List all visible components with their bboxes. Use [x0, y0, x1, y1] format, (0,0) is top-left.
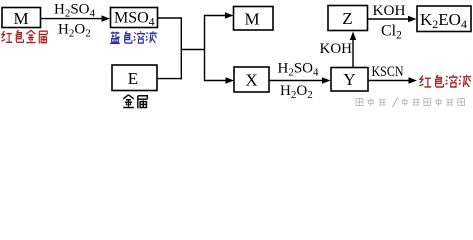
svg-text:KOH: KOH: [373, 3, 406, 19]
wire to X: [205, 80, 227, 82]
box M1: [2, 8, 41, 28]
arrowhead into X: [226, 77, 235, 83]
arrowhead into Y: [322, 77, 331, 83]
wire middle horizontal: [181, 49, 205, 51]
svg-text:M: M: [244, 10, 259, 29]
svg-text:H2SO4: H2SO4: [54, 2, 96, 20]
svg-text:Z: Z: [342, 9, 352, 28]
arrowhead into Z: [350, 32, 356, 41]
arrowhead into MSO4: [102, 15, 111, 21]
wire Y to Z vertical: [352, 40, 354, 67]
wire E exit: [157, 78, 182, 80]
arrowhead into K2EO4: [408, 16, 417, 22]
box Y: [331, 68, 368, 92]
svg-text:MSO4: MSO4: [114, 10, 155, 29]
box Z: [328, 6, 368, 31]
svg-text:K2EO4: K2EO4: [420, 10, 467, 31]
svg-text:E: E: [128, 69, 138, 88]
label 红色溶液: [420, 75, 471, 87]
svg-text:Y: Y: [343, 70, 355, 89]
box MSO4: [111, 8, 158, 28]
wire to M2: [205, 15, 226, 17]
label 蓝色溶液: [110, 31, 157, 43]
wire MSO4 exit: [158, 17, 183, 19]
wire M1 to MSO4: [41, 18, 103, 20]
arrowhead into M2: [225, 12, 234, 18]
watermark 头条号/周考快看教育: [356, 97, 465, 107]
label 红色金属: [1, 30, 47, 43]
box K2EO4: [417, 6, 471, 32]
box X: [234, 67, 269, 92]
wire left vertical: [180, 18, 182, 79]
label 金属: [123, 95, 147, 109]
arrowhead to red solution: [409, 77, 418, 83]
svg-text:KOH: KOH: [320, 41, 353, 57]
svg-text:H2SO4: H2SO4: [278, 61, 320, 79]
box M2: [234, 7, 274, 31]
wire right vertical: [204, 15, 206, 81]
wire Z to K2EO4: [368, 18, 409, 20]
svg-text:KSCN: KSCN: [372, 64, 404, 80]
wire X to Y: [269, 80, 322, 82]
wire Y to red solution: [368, 80, 409, 82]
svg-text:X: X: [245, 71, 257, 90]
svg-text:M: M: [13, 9, 28, 28]
box E: [112, 65, 157, 91]
